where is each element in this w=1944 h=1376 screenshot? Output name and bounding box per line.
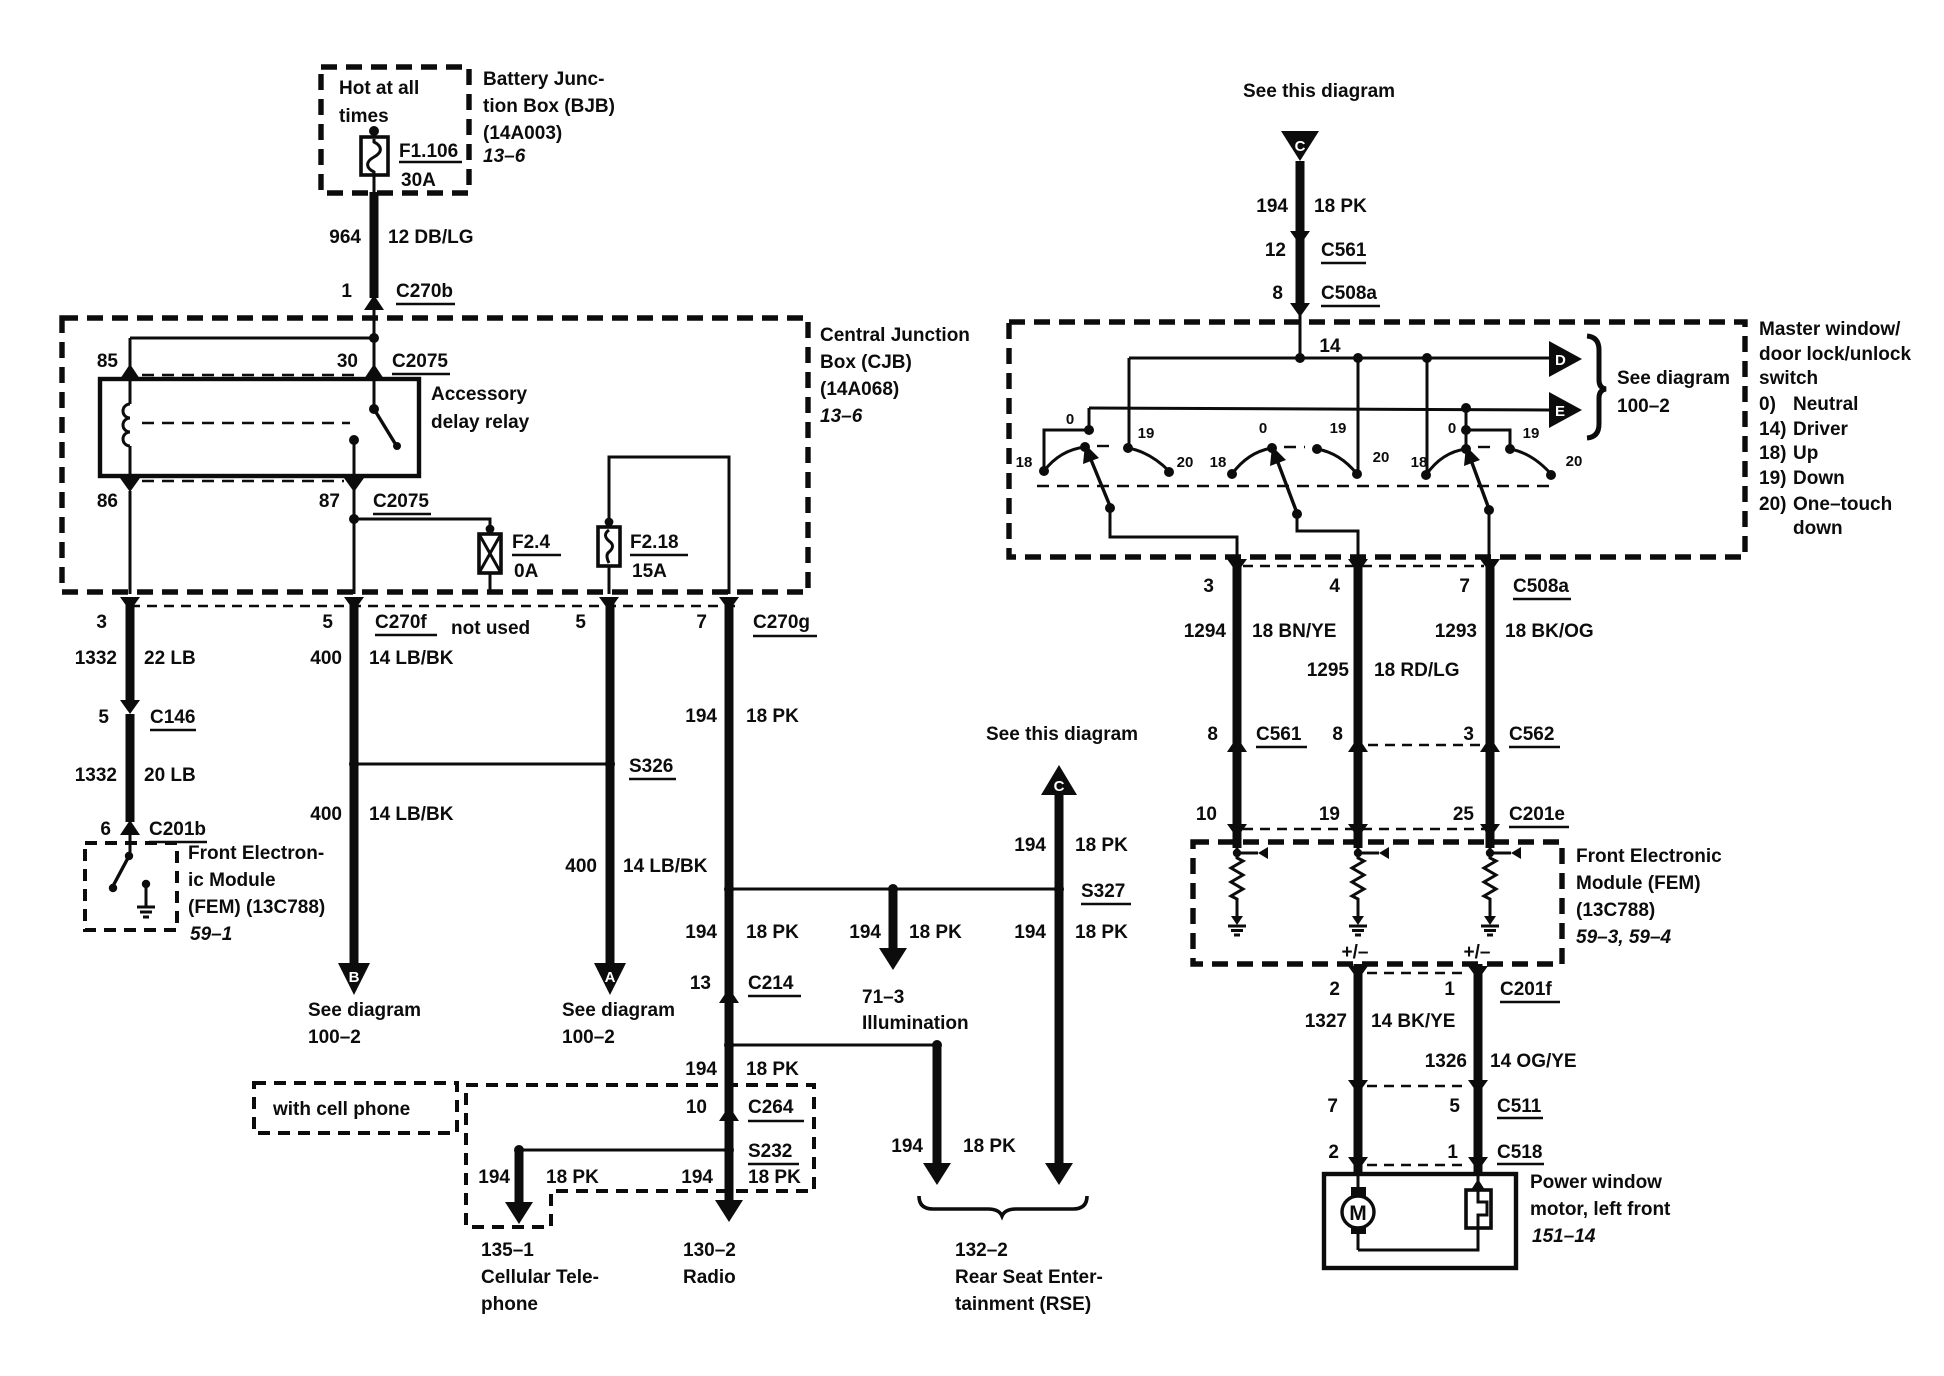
splice S326 tie line	[349, 759, 610, 769]
label: Front Electronic Module (FEM) (13C788) 59-1	[188, 843, 325, 945]
svg-text:18 PK: 18 PK	[1075, 922, 1128, 943]
svg-text:Master window/: Master window/	[1759, 319, 1901, 340]
svg-text:2: 2	[1329, 979, 1340, 1000]
svg-text:C214: C214	[748, 973, 794, 994]
wire 400 14 LB/BK label (below S326 left)	[310, 804, 453, 825]
svg-text:5: 5	[1449, 1096, 1460, 1117]
svg-text:18 BN/YE: 18 BN/YE	[1252, 621, 1336, 642]
resistor (FEM pull-down 1)	[1231, 853, 1243, 916]
wire 1293 18 BK/OG	[1435, 560, 1594, 848]
svg-text:+/–: +/–	[1342, 942, 1369, 963]
fuse F1.106 30A	[361, 126, 462, 191]
svg-text:3: 3	[1463, 724, 1474, 745]
connector C2075 pins 85 and 30	[97, 351, 450, 379]
svg-text:Illumination: Illumination	[862, 1013, 969, 1034]
svg-text:14 LB/BK: 14 LB/BK	[623, 856, 708, 877]
svg-text:Front Electron-: Front Electron-	[188, 843, 324, 864]
wire 1332 22 LB	[75, 600, 196, 702]
svg-text:18 PK: 18 PK	[546, 1167, 599, 1188]
svg-text:C270b: C270b	[396, 281, 453, 302]
svg-text:13: 13	[690, 973, 711, 994]
svg-text:194: 194	[1014, 922, 1046, 943]
switch mechanical link (dashed)	[1037, 485, 1550, 487]
svg-text:20 LB: 20 LB	[144, 765, 196, 786]
svg-text:20: 20	[1177, 454, 1194, 471]
svg-text:1295: 1295	[1307, 660, 1350, 681]
splice S326	[605, 756, 676, 779]
connector C508a pin 8 (feed)	[1272, 283, 1380, 317]
component box: power window motor, left front	[1324, 1174, 1516, 1268]
label: 132-2 Rear Seat Entertainment (RSE)	[955, 1240, 1103, 1315]
FEM input sense arrow 2	[1354, 840, 1389, 859]
wire: SW1 wiper to pin 3	[1110, 508, 1237, 559]
relay switch contacts	[349, 379, 401, 492]
svg-text:F2.4: F2.4	[512, 532, 550, 553]
svg-text:(FEM) (13C788): (FEM) (13C788)	[188, 897, 325, 918]
svg-text:15A: 15A	[632, 561, 667, 582]
switch SW3 contacts and wiper	[1426, 444, 1556, 515]
off-page arrow B (see diagram 100-2)	[308, 963, 421, 1048]
svg-text:13–6: 13–6	[483, 146, 526, 167]
svg-text:194: 194	[478, 1167, 510, 1188]
label: See this diagram (right)	[1243, 81, 1395, 102]
label: 135-1 Cellular Telephone	[481, 1240, 599, 1315]
relay mechanical link (dashed)	[142, 422, 350, 424]
label: 130-2 Radio	[683, 1240, 736, 1288]
svg-text:Driver: Driver	[1793, 419, 1849, 440]
svg-text:400: 400	[310, 648, 342, 669]
svg-text:400: 400	[565, 856, 597, 877]
svg-text:Rear Seat Enter-: Rear Seat Enter-	[955, 1267, 1103, 1288]
wire 194 18 PK (cellular phone drop)	[478, 1145, 599, 1202]
connector C270f / C270g pin row at CJB bottom	[96, 597, 817, 639]
svg-text:6: 6	[100, 819, 111, 840]
svg-text:18 PK: 18 PK	[746, 1059, 799, 1080]
connector C214 pin 13	[690, 973, 801, 1003]
svg-text:0: 0	[1259, 420, 1267, 437]
wire 400 14 LB/BK (to arrow A)	[606, 600, 615, 963]
label: Accessory delay relay	[431, 384, 530, 433]
svg-text:See this diagram: See this diagram	[1243, 81, 1395, 102]
svg-text:(14A003): (14A003)	[483, 123, 562, 144]
svg-text:door lock/unlock: door lock/unlock	[1759, 344, 1911, 365]
svg-text:18 PK: 18 PK	[746, 706, 799, 727]
wire: relay pin 86 to CJB pin 3	[129, 491, 132, 594]
connector C508a pins 3/4/7	[1203, 559, 1571, 599]
svg-text:18 PK: 18 PK	[746, 922, 799, 943]
svg-text:194: 194	[681, 1167, 713, 1188]
switch SW3 pin 18 drop from 14 bus	[1421, 358, 1431, 480]
svg-text:100–2: 100–2	[308, 1027, 361, 1048]
off-page arrow E (see diagram 100-2)	[1549, 392, 1582, 428]
svg-text:C264: C264	[748, 1097, 794, 1118]
svg-text:C561: C561	[1256, 724, 1302, 745]
svg-text:Neutral: Neutral	[1793, 394, 1858, 415]
ground (FEM 2)	[1349, 916, 1367, 935]
wire 964 12 DB/LG	[329, 175, 473, 298]
svg-text:194: 194	[849, 922, 881, 943]
connector C561 pin 12 (feed)	[1265, 231, 1367, 263]
svg-text:18 PK: 18 PK	[748, 1167, 801, 1188]
label: Hot at all times	[339, 78, 419, 127]
svg-text:20: 20	[1373, 449, 1390, 466]
svg-text:C508a: C508a	[1513, 576, 1569, 597]
FEM input sense arrow 1	[1233, 840, 1268, 859]
svg-text:times: times	[339, 106, 389, 127]
wire 194 18 PK (illumination drop)	[849, 884, 962, 948]
svg-text:59–1: 59–1	[190, 924, 232, 945]
label: See diagram 100-2 (master switch)	[1617, 368, 1730, 417]
svg-text:132–2: 132–2	[955, 1240, 1008, 1261]
svg-text:8: 8	[1272, 283, 1283, 304]
svg-text:phone: phone	[481, 1294, 538, 1315]
svg-text:Down: Down	[1793, 468, 1845, 489]
svg-text:1332: 1332	[75, 765, 117, 786]
wire: SW2 wiper to pin 4	[1297, 514, 1358, 559]
wire 194 18 PK (S280 drop to RSE)	[891, 1040, 1016, 1163]
svg-text:4: 4	[1329, 576, 1340, 597]
svg-text:18: 18	[1016, 454, 1033, 471]
svg-text:19: 19	[1330, 420, 1347, 437]
connector C518 pins 2/1	[1328, 1142, 1544, 1171]
svg-text:C270g: C270g	[753, 612, 810, 633]
wire 194 18 PK (master switch feed)	[1256, 161, 1367, 358]
svg-text:19: 19	[1523, 425, 1540, 442]
svg-text:59–3, 59–4: 59–3, 59–4	[1576, 927, 1672, 948]
label: Power window motor, left front 151-14	[1530, 1172, 1671, 1247]
svg-text:18 PK: 18 PK	[1075, 835, 1128, 856]
svg-text:3: 3	[1203, 576, 1214, 597]
connector C201f pins 2/1	[1329, 966, 1560, 1002]
svg-text:18 PK: 18 PK	[963, 1136, 1016, 1157]
connector C146 pin 5	[98, 700, 196, 822]
wire 1295 18 RD/LG	[1307, 560, 1460, 848]
connector C201b pin 6	[100, 819, 207, 856]
svg-text:Battery Junc-: Battery Junc-	[483, 69, 604, 90]
svg-text:1327: 1327	[1305, 1011, 1347, 1032]
fuse F2.18 15A	[598, 518, 688, 594]
fuse F2.4 0A (not used)	[479, 532, 561, 594]
svg-text:(14A068): (14A068)	[820, 379, 899, 400]
wire: F2.18 loop to CJB pin 7	[609, 457, 729, 594]
connector C511 pins 7/5	[1327, 1080, 1543, 1118]
motor M (left front window)	[1342, 1174, 1374, 1250]
svg-text:5: 5	[575, 612, 586, 633]
svg-text:tion Box (BJB): tion Box (BJB)	[483, 96, 615, 117]
svg-text:151–14: 151–14	[1532, 1226, 1596, 1247]
svg-text:13–6: 13–6	[820, 406, 863, 427]
svg-text:135–1: 135–1	[481, 1240, 534, 1261]
svg-text:S232: S232	[748, 1141, 792, 1162]
switch SW1 position labels	[1016, 411, 1194, 471]
connector C270b pin 1	[341, 281, 455, 338]
off-page arrow C (down, into master switch)	[1281, 131, 1319, 161]
svg-text:964: 964	[329, 227, 361, 248]
svg-text:87: 87	[319, 491, 340, 512]
wire 1326 14 OG/YE	[1425, 964, 1577, 1176]
svg-text:100–2: 100–2	[562, 1027, 615, 1048]
svg-text:ic Module: ic Module	[188, 870, 276, 891]
svg-text:30: 30	[337, 351, 358, 372]
ground (inside FEM 59-1)	[137, 880, 155, 917]
splice S232 tie line	[519, 1141, 799, 1164]
svg-text:19): 19)	[1759, 468, 1786, 489]
svg-text:14 LB/BK: 14 LB/BK	[369, 804, 454, 825]
svg-text:30A: 30A	[401, 170, 436, 191]
off-page arrow A (see diagram 100-2)	[562, 963, 675, 1048]
svg-text:100–2: 100–2	[1617, 396, 1670, 417]
svg-text:C518: C518	[1497, 1142, 1542, 1163]
svg-text:18 PK: 18 PK	[1314, 196, 1367, 217]
wire 1294 18 BN/YE	[1184, 560, 1337, 848]
switch SW3 position labels	[1411, 420, 1583, 471]
svg-text:F2.18: F2.18	[630, 532, 679, 553]
svg-text:+/–: +/–	[1464, 942, 1491, 963]
connector C264 pin 10	[686, 1097, 804, 1121]
svg-text:14 LB/BK: 14 LB/BK	[369, 648, 454, 669]
svg-text:14 BK/YE: 14 BK/YE	[1371, 1011, 1455, 1032]
module box: Front Electronic Module (FEM) 59-1 dashed outline	[85, 843, 177, 930]
net E bus	[1089, 403, 1550, 413]
arrow to radio	[715, 1200, 743, 1222]
splice S327 tie line	[724, 884, 1059, 894]
svg-text:71–3: 71–3	[862, 987, 904, 1008]
svg-text:Accessory: Accessory	[431, 384, 528, 405]
svg-text:7: 7	[696, 612, 707, 633]
svg-text:194: 194	[1256, 196, 1288, 217]
svg-text:14): 14)	[1759, 419, 1786, 440]
svg-text:1: 1	[341, 281, 352, 302]
svg-text:18 RD/LG: 18 RD/LG	[1374, 660, 1460, 681]
svg-text:(13C788): (13C788)	[1576, 900, 1655, 921]
option region: cell phone / radio dashed outline	[466, 1085, 814, 1227]
ground (FEM 1)	[1228, 916, 1246, 935]
wire 194 18 PK (radio feed)	[685, 600, 799, 1200]
svg-text:194: 194	[685, 922, 717, 943]
svg-text:1293: 1293	[1435, 621, 1477, 642]
label: See this diagram (left)	[986, 724, 1138, 745]
svg-text:Box (CJB): Box (CJB)	[820, 352, 912, 373]
svg-text:A: A	[605, 969, 616, 986]
bracket for D/E arrows	[1587, 336, 1606, 438]
resistor (FEM pull-down 2)	[1352, 853, 1364, 916]
svg-text:194: 194	[685, 1059, 717, 1080]
svg-text:1: 1	[1444, 979, 1455, 1000]
svg-text:194: 194	[891, 1136, 923, 1157]
svg-text:194: 194	[685, 706, 717, 727]
svg-text:18: 18	[1210, 454, 1227, 471]
svg-text:with cell phone: with cell phone	[272, 1099, 410, 1120]
switch SW3 pin 0 feed from E bus	[1461, 408, 1510, 449]
label: 71-3 Illumination	[862, 987, 969, 1034]
svg-text:M: M	[1349, 1202, 1367, 1225]
svg-text:18): 18)	[1759, 443, 1786, 464]
svg-text:See diagram: See diagram	[308, 1000, 421, 1021]
svg-text:motor, left front: motor, left front	[1530, 1199, 1671, 1220]
option box: with cell phone	[254, 1083, 457, 1133]
relay: accessory delay relay	[100, 379, 419, 476]
wire 194 18 PK label (C branch lower)	[1014, 922, 1128, 943]
svg-text:18 PK: 18 PK	[909, 922, 962, 943]
splice S280 tie line	[724, 1040, 937, 1050]
svg-text:12 DB/LG: 12 DB/LG	[388, 227, 474, 248]
svg-text:19: 19	[1138, 425, 1155, 442]
svg-text:Hot at all: Hot at all	[339, 78, 419, 99]
label: +/- motor drive outputs	[1342, 942, 1491, 963]
svg-text:tainment (RSE): tainment (RSE)	[955, 1294, 1091, 1315]
svg-text:14 OG/YE: 14 OG/YE	[1490, 1051, 1577, 1072]
svg-text:25: 25	[1453, 804, 1475, 825]
off-page arrow D (see diagram 100-2)	[1549, 341, 1582, 377]
svg-text:B: B	[349, 969, 360, 986]
svg-text:C: C	[1295, 138, 1306, 155]
label: Battery Junction Box (BJB) (14A003) 13-6	[483, 69, 615, 167]
svg-text:C511: C511	[1497, 1096, 1542, 1117]
svg-text:D: D	[1555, 352, 1566, 369]
svg-text:130–2: 130–2	[683, 1240, 736, 1261]
svg-text:0A: 0A	[514, 561, 539, 582]
svg-text:3: 3	[96, 612, 107, 633]
FEM input sense arrow 3	[1486, 840, 1521, 859]
switch SW2 contacts and wiper	[1227, 443, 1357, 519]
svg-text:C508a: C508a	[1321, 283, 1377, 304]
switch SW2 pin 20 drop from 14 bus	[1352, 358, 1362, 479]
svg-text:S326: S326	[629, 756, 673, 777]
svg-text:8: 8	[1207, 724, 1218, 745]
svg-text:One–touch: One–touch	[1793, 494, 1892, 515]
svg-text:S327: S327	[1081, 881, 1125, 902]
svg-text:See this diagram: See this diagram	[986, 724, 1138, 745]
label: Front Electronic Module (FEM) (13C788) 59-3, 59-4	[1576, 846, 1722, 948]
wire 194 18 PK label (above C264)	[685, 1059, 799, 1080]
svg-text:1332: 1332	[75, 648, 117, 669]
arrow to RSE (S280 drop)	[923, 1163, 951, 1185]
svg-text:1: 1	[1447, 1142, 1458, 1163]
svg-text:C201b: C201b	[149, 819, 206, 840]
svg-text:down: down	[1793, 518, 1843, 539]
svg-text:20): 20)	[1759, 494, 1786, 515]
svg-text:1294: 1294	[1184, 621, 1227, 642]
arrow to cellular telephone	[505, 1202, 533, 1224]
module box: Front Electronic Module (FEM) 59-3/59-4 dashed outline	[1193, 842, 1562, 964]
switch box: master window/door lock/unlock switch dashed outline	[1009, 322, 1745, 557]
svg-text:Central Junction: Central Junction	[820, 325, 970, 346]
svg-text:12: 12	[1265, 240, 1286, 261]
svg-text:Cellular Tele-: Cellular Tele-	[481, 1267, 599, 1288]
svg-text:5: 5	[98, 707, 109, 728]
switch inside FEM 59-1	[109, 852, 133, 892]
svg-text:0: 0	[1066, 411, 1074, 428]
off-page arrow C (up, feeding S327)	[1041, 765, 1077, 795]
svg-text:Front Electronic: Front Electronic	[1576, 846, 1722, 867]
svg-text:Module (FEM): Module (FEM)	[1576, 873, 1701, 894]
svg-text:switch: switch	[1759, 368, 1818, 389]
svg-text:See diagram: See diagram	[1617, 368, 1730, 389]
svg-text:C146: C146	[150, 707, 195, 728]
svg-text:not used: not used	[451, 618, 530, 639]
svg-text:7: 7	[1327, 1096, 1338, 1117]
svg-text:18 BK/OG: 18 BK/OG	[1505, 621, 1594, 642]
arrow to RSE (C branch)	[1045, 1163, 1073, 1185]
node: C270b feed junction inside CJB	[130, 333, 379, 379]
svg-text:F1.106: F1.106	[399, 141, 458, 162]
arrow to illumination	[879, 948, 907, 970]
svg-text:Radio: Radio	[683, 1267, 736, 1288]
splice S327	[1054, 881, 1131, 904]
label: Central Junction Box (CJB) (14A068) 13-6	[820, 325, 970, 427]
svg-text:E: E	[1555, 403, 1565, 420]
svg-text:C: C	[1054, 778, 1065, 795]
svg-text:7: 7	[1459, 576, 1470, 597]
wire 1332 20 LB labels	[75, 765, 196, 786]
svg-text:1326: 1326	[1425, 1051, 1467, 1072]
power box: Battery Junction Box (BJB) dashed outline	[321, 67, 469, 193]
resistor (FEM pull-down 3)	[1484, 853, 1496, 916]
svg-text:85: 85	[97, 351, 119, 372]
switch SW1 pin 19 drop from 14 bus	[1123, 358, 1133, 453]
wire 400 14 LB/BK label (above arrow A)	[565, 856, 707, 877]
wire 194 18 PK (C branch upper)	[1014, 795, 1128, 1163]
ground (FEM 3)	[1481, 916, 1499, 935]
connector row C561 pin 8 / C562 pins 8,3	[1207, 724, 1560, 752]
relay coil	[123, 379, 130, 476]
svg-text:C2075: C2075	[392, 351, 448, 372]
switch SW2 position labels	[1210, 420, 1390, 471]
svg-text:C562: C562	[1509, 724, 1554, 745]
svg-text:C270f: C270f	[375, 612, 427, 633]
svg-text:86: 86	[97, 491, 118, 512]
svg-text:20: 20	[1566, 453, 1583, 470]
svg-text:2: 2	[1328, 1142, 1339, 1163]
label: master window/door lock/unlock switch legend	[1759, 319, 1911, 539]
svg-text:C201f: C201f	[1500, 979, 1552, 1000]
wire: motor return loop inside box	[1358, 1228, 1478, 1250]
switch SW1 pin 0 feed from E bus	[1044, 408, 1094, 468]
power box: Central Junction Box (CJB) dashed outline	[62, 318, 808, 592]
net 14 bus (driver)	[1129, 336, 1550, 363]
svg-text:194: 194	[1014, 835, 1046, 856]
svg-text:0: 0	[1448, 420, 1456, 437]
svg-text:delay relay: delay relay	[431, 412, 530, 433]
svg-text:19: 19	[1319, 804, 1340, 825]
svg-text:10: 10	[1196, 804, 1217, 825]
svg-text:400: 400	[310, 804, 342, 825]
svg-text:Up: Up	[1793, 443, 1818, 464]
svg-text:8: 8	[1332, 724, 1343, 745]
svg-text:18: 18	[1411, 454, 1428, 471]
svg-text:C201e: C201e	[1509, 804, 1565, 825]
wire 400 14 LB/BK (to arrow B)	[310, 600, 453, 963]
svg-text:22 LB: 22 LB	[144, 648, 196, 669]
svg-text:C561: C561	[1321, 240, 1367, 261]
svg-text:5: 5	[322, 612, 333, 633]
wire 194 18 PK label (below S327)	[685, 922, 799, 943]
svg-text:Power window: Power window	[1530, 1172, 1662, 1193]
svg-text:See diagram: See diagram	[562, 1000, 675, 1021]
wire: SW3 wiper to pin 7	[1488, 510, 1491, 559]
svg-text:0): 0)	[1759, 394, 1776, 415]
circuit breaker (motor thermal protector)	[1466, 1174, 1491, 1228]
wire: relay pin 87 to CJB pin 5 and fuse feed	[349, 491, 494, 594]
svg-text:14: 14	[1319, 336, 1341, 357]
switch SW1 contacts and wiper	[1039, 442, 1174, 513]
connector C201e pins 10/19/25	[1196, 804, 1569, 838]
connector C2075 pins 86 and 87	[97, 478, 431, 514]
wire 1327 14 BK/YE	[1305, 964, 1456, 1176]
wire 194 18 PK label (radio drop)	[681, 1167, 801, 1188]
svg-text:C2075: C2075	[373, 491, 429, 512]
brace grouping RSE arrows	[919, 1196, 1087, 1216]
